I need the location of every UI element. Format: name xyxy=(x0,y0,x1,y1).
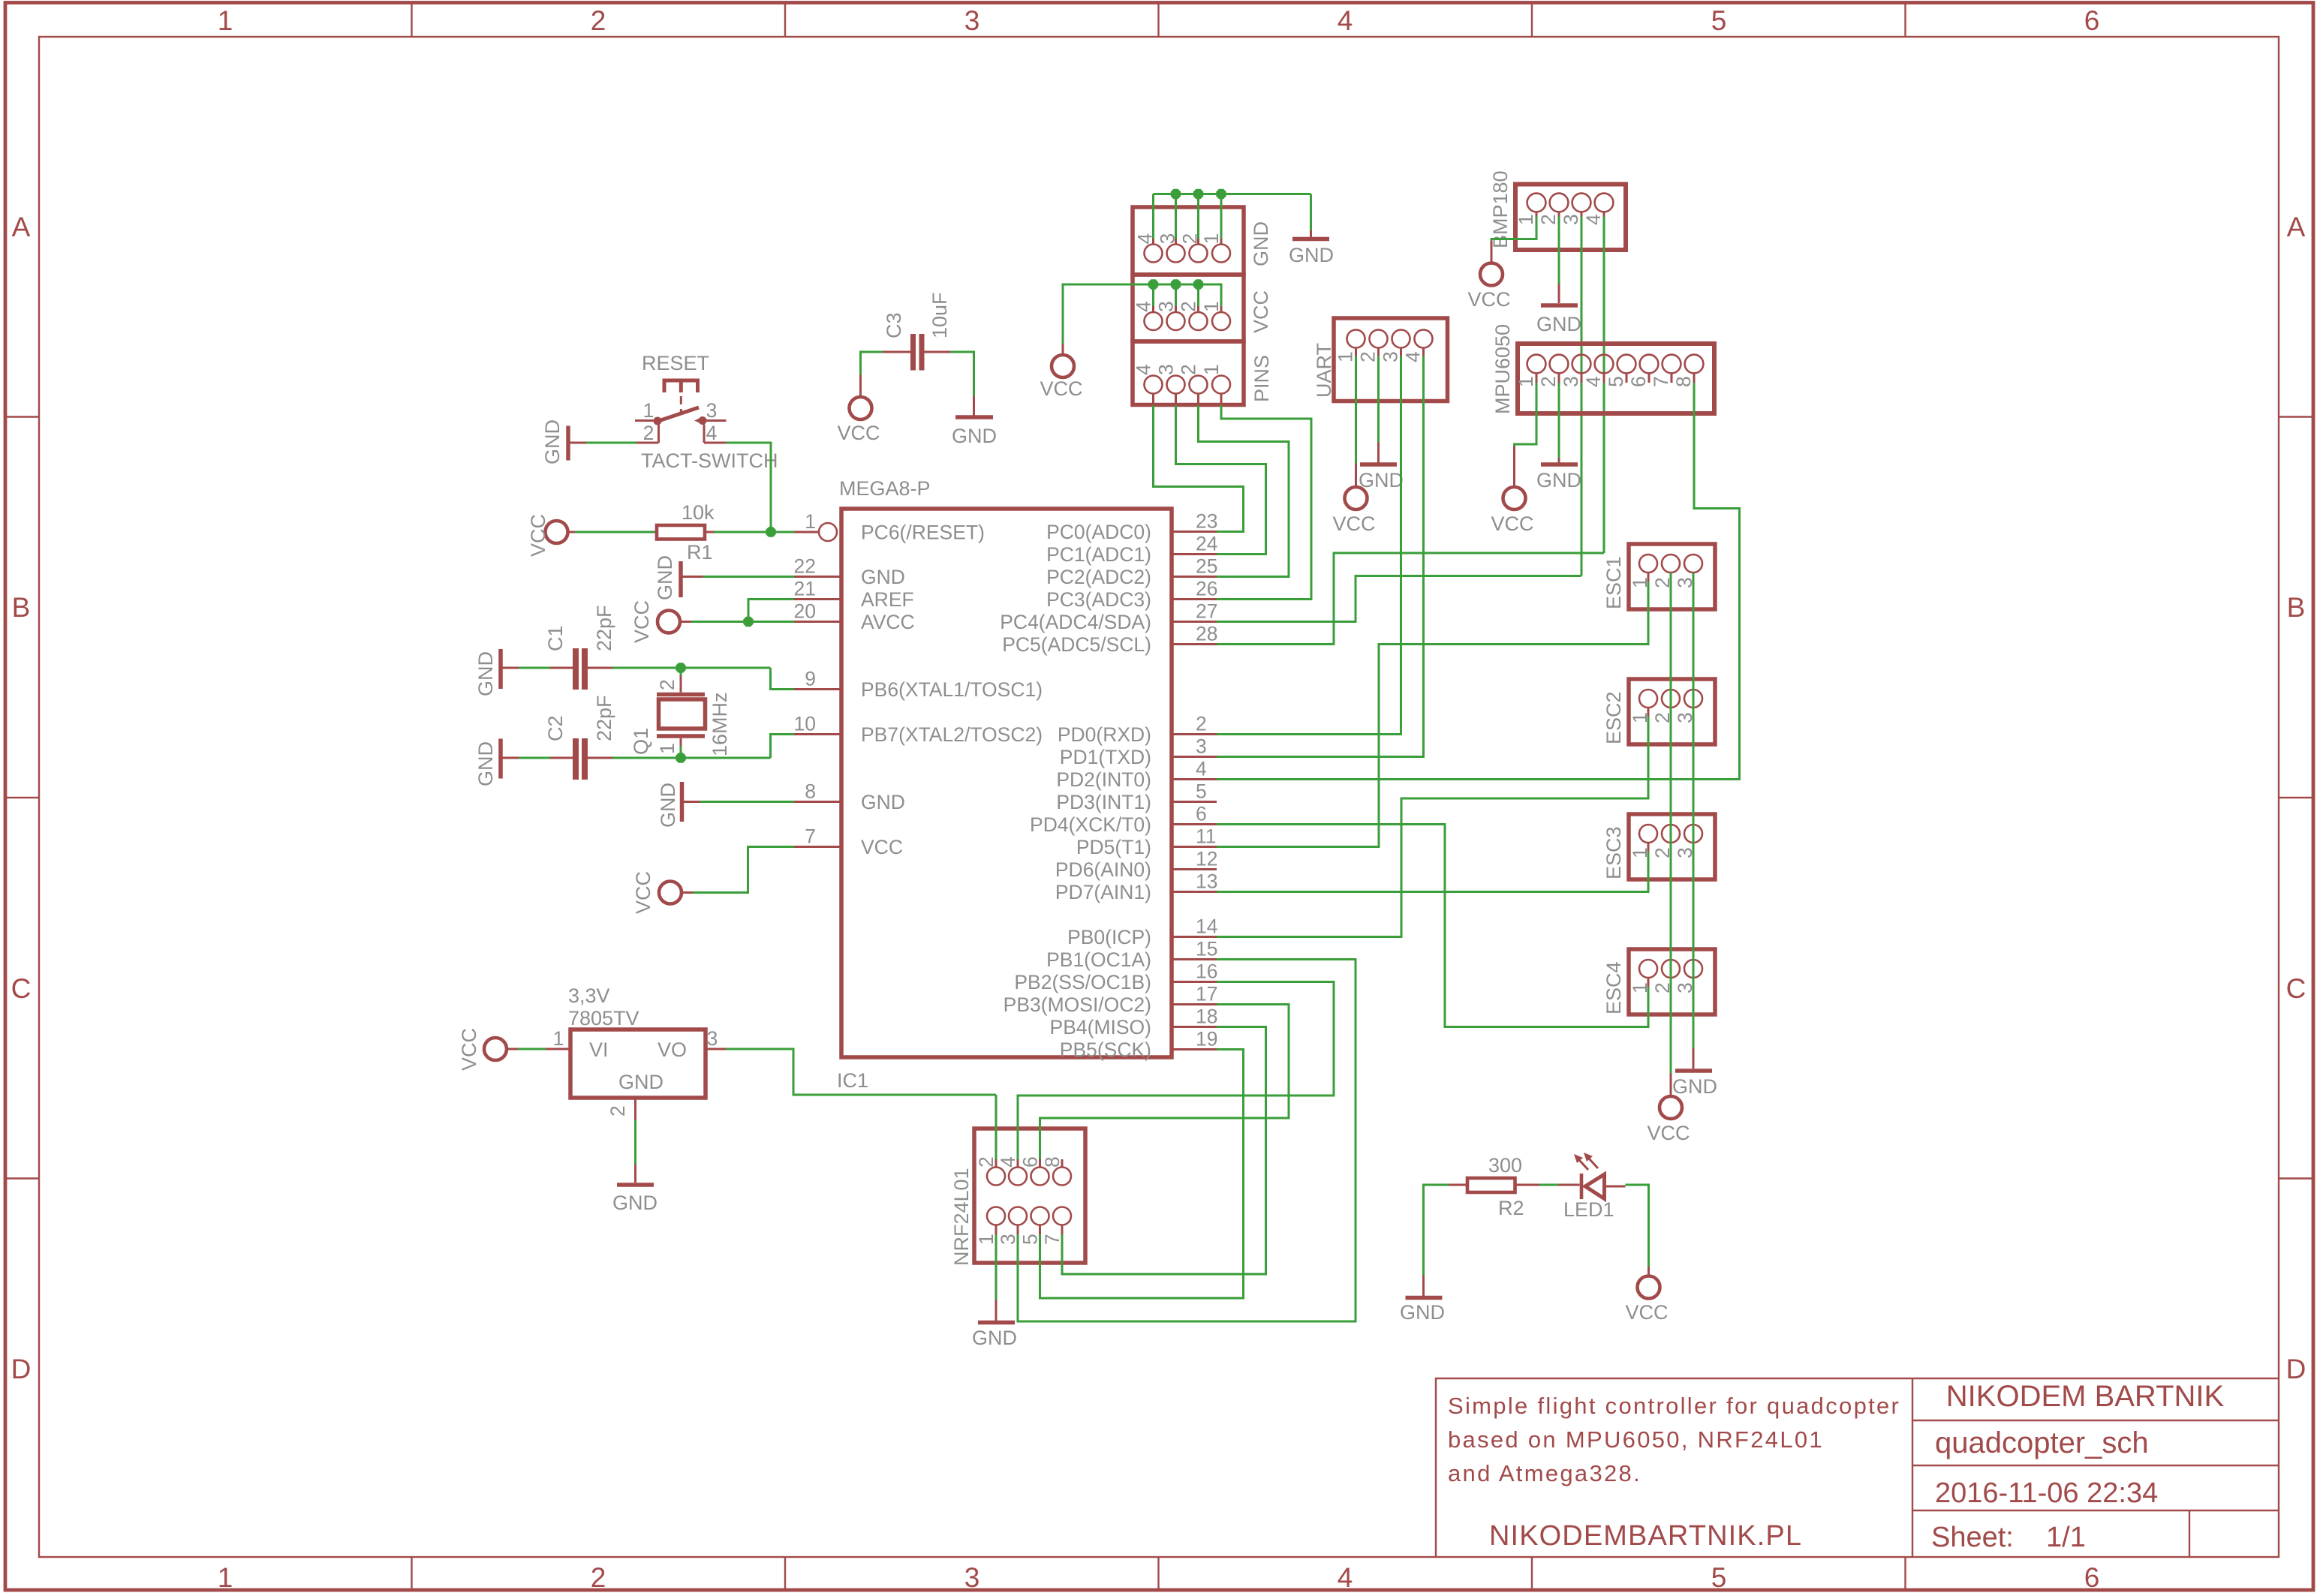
svg-text:13: 13 xyxy=(1196,870,1217,893)
svg-text:GND: GND xyxy=(612,1192,657,1214)
wire BMP180 pin4 SCL column xyxy=(1603,217,1605,554)
svg-text:GND: GND xyxy=(474,651,497,696)
header ESC3 pin circle 3 xyxy=(1684,825,1702,843)
header VCC pin circle 4 xyxy=(1145,312,1163,330)
svg-text:GND: GND xyxy=(1400,1301,1445,1324)
header MPU6050 pin circle 4 xyxy=(1595,355,1614,374)
header UART pin 1 stub xyxy=(1355,348,1357,356)
ground symbol (BMP180) xyxy=(1558,284,1560,304)
header NRF24L01 body xyxy=(974,1129,1085,1263)
header PINS pin circle 1 xyxy=(1212,376,1230,394)
svg-text:VCC: VCC xyxy=(837,422,880,444)
svg-text:14: 14 xyxy=(1196,915,1217,938)
svg-text:VCC: VCC xyxy=(630,600,653,643)
svg-text:ESC2: ESC2 xyxy=(1602,691,1625,744)
svg-text:LED1: LED1 xyxy=(1563,1198,1614,1221)
svg-text:5: 5 xyxy=(1019,1234,1042,1245)
header PINS pin 3 stub xyxy=(1175,394,1177,406)
svg-text:1: 1 xyxy=(656,743,679,754)
LED LED1 xyxy=(1558,1184,1580,1186)
wire NRF pin5 SCK to IC1 pin19 xyxy=(1040,1050,1244,1299)
svg-text:VCC: VCC xyxy=(1040,377,1082,400)
header NRF24L01 pin circle 1 xyxy=(987,1207,1005,1225)
header BMP180 body xyxy=(1515,185,1626,251)
wire PINS pin2 to IC1 pin25 xyxy=(1199,405,1289,577)
junction GND rail xyxy=(1171,189,1181,199)
header ESC2 body xyxy=(1629,679,1715,744)
ground symbol (IC1 pin 8) xyxy=(680,782,685,822)
tact switch contact dot pin3/4 xyxy=(699,416,707,425)
svg-text:2: 2 xyxy=(591,1562,606,1593)
IC1 pin 24 stub xyxy=(1172,553,1217,555)
IC1 pin 2 stub xyxy=(1172,733,1217,735)
frame row tick (left) xyxy=(4,797,39,798)
crystal Q1 pin 2 lead xyxy=(680,675,682,693)
svg-text:VCC: VCC xyxy=(1467,288,1510,311)
IC1 pin 8 stub xyxy=(794,801,841,803)
IC1 pin 3 stub xyxy=(1172,756,1217,758)
IC1 pin 27 stub xyxy=(1172,621,1217,623)
wire VCC to IC1 pin7 xyxy=(693,847,794,893)
svg-text:2016-11-06 22:34: 2016-11-06 22:34 xyxy=(1935,1477,2158,1509)
svg-text:8: 8 xyxy=(1672,376,1695,387)
wire header VCC pin 4 riser xyxy=(1152,284,1154,306)
wire MPU6050 pin1 to VCC xyxy=(1515,383,1537,446)
header ESC1 body xyxy=(1629,544,1715,609)
header NRF24L01 pin 6 stub xyxy=(1039,1159,1041,1168)
IC1 pin 20 stub xyxy=(794,621,841,623)
svg-text:23: 23 xyxy=(1196,510,1217,533)
header MPU6050 pin circle 6 xyxy=(1640,355,1659,374)
tact switch pin 2 lead xyxy=(657,425,660,443)
wire UART pin2 to GND xyxy=(1377,356,1380,443)
title block row line 3 xyxy=(1912,1510,2279,1511)
svg-text:PB3(MOSI/OC2): PB3(MOSI/OC2) xyxy=(1004,993,1151,1016)
tact switch pin 1 lead xyxy=(635,419,654,422)
ground symbol (GND header) xyxy=(1310,230,1312,237)
header ESC1 pin circle 3 xyxy=(1684,555,1702,573)
title block sheet divider xyxy=(2189,1510,2190,1557)
svg-text:3,3V: 3,3V xyxy=(568,984,610,1007)
IC1 pin 1 inversion circle xyxy=(819,523,837,541)
VCC symbol (R1) xyxy=(546,521,568,543)
wire SDA IC1 pin27 to BMP180/MPU6050 xyxy=(1217,576,1581,622)
svg-text:GND: GND xyxy=(474,741,497,786)
wire C3 to GND xyxy=(950,352,974,396)
wire C1 to XTAL1 net xyxy=(612,667,771,669)
VCC symbol (IC1 pin 7) xyxy=(659,882,682,904)
svg-text:1: 1 xyxy=(1335,351,1357,362)
wire header GND pin 1 riser xyxy=(1220,194,1223,239)
VCC symbol (LED1) xyxy=(1647,1267,1650,1276)
junction VCC rail xyxy=(1171,279,1181,289)
header ESC3 pin 1 stub xyxy=(1647,843,1650,852)
svg-text:GND: GND xyxy=(1250,221,1272,266)
junction node /RESET xyxy=(766,527,775,537)
frame row tick (right) xyxy=(2279,1177,2313,1179)
resistor R1 right lead xyxy=(705,531,714,534)
capacitor C1 left lead xyxy=(550,667,573,669)
ground symbol (NRF24L01) xyxy=(995,1300,998,1321)
header NRF24L01 pin 5 stub xyxy=(1039,1225,1041,1235)
IC1 pin 16 stub xyxy=(1172,981,1217,983)
svg-text:3: 3 xyxy=(1560,376,1582,387)
svg-text:Simple flight controller for q: Simple flight controller for quadcopter xyxy=(1448,1393,1900,1419)
7805 pin 1 stub xyxy=(546,1048,570,1050)
svg-text:16: 16 xyxy=(1196,960,1217,983)
wire C3 to VCC xyxy=(861,352,883,374)
tact switch dashed link xyxy=(680,396,682,413)
header MPU6050 pin circle 7 xyxy=(1663,355,1681,374)
frame column tick (bottom) xyxy=(784,1557,786,1591)
wire BMP180 pin3 SDA column xyxy=(1581,217,1583,576)
header MPU6050 body xyxy=(1518,344,1714,413)
header ESC4 pin 1 stub xyxy=(1647,978,1650,987)
header MPU6050 pin 6 stub xyxy=(1648,373,1650,383)
junction AVCC/AREF node xyxy=(743,617,753,627)
svg-text:3: 3 xyxy=(964,1562,980,1593)
svg-text:GND: GND xyxy=(1289,244,1334,266)
svg-text:1: 1 xyxy=(553,1027,564,1050)
svg-text:PC5(ADC5/SCL): PC5(ADC5/SCL) xyxy=(1002,633,1151,656)
wire BMP180 pin2 to GND xyxy=(1558,217,1560,284)
capacitor C2 plates xyxy=(573,738,579,780)
svg-text:PB5(SCK): PB5(SCK) xyxy=(1060,1038,1151,1061)
crystal Q1 pin 1 lead xyxy=(680,738,682,746)
crystal Q1 electrodes xyxy=(657,693,705,697)
header GND pin 1 stub xyxy=(1220,239,1223,245)
header NRF24L01 pin 1 stub xyxy=(995,1225,998,1235)
header ESC1 pin 1 stub xyxy=(1647,573,1650,582)
svg-text:7: 7 xyxy=(1041,1234,1064,1245)
IC1 pin 21 stub xyxy=(794,598,841,600)
header MPU6050 pin 7 stub xyxy=(1671,373,1673,383)
svg-text:1: 1 xyxy=(1515,376,1537,387)
svg-text:B: B xyxy=(12,592,31,623)
wire SCL IC1 pin28 to BMP180/MPU6050 xyxy=(1217,553,1604,645)
svg-text:1: 1 xyxy=(805,510,816,533)
header GND pin 2 stub xyxy=(1197,239,1199,245)
svg-text:PB7(XTAL2/TOSC2): PB7(XTAL2/TOSC2) xyxy=(861,723,1043,746)
wire MPU6050 pin8 INT to IC1 pin4 xyxy=(1217,383,1740,780)
IC1 pin 12 stub xyxy=(1172,868,1217,870)
wire XTAL2 net to IC1 pin10 xyxy=(771,735,795,759)
svg-text:ESC1: ESC1 xyxy=(1602,556,1625,609)
svg-text:2: 2 xyxy=(591,5,606,36)
tact switch pin 2 lead horizontal xyxy=(636,442,659,444)
header NRF24L01 pin circle 6 xyxy=(1031,1168,1049,1186)
VCC symbol (7805 input) xyxy=(484,1038,507,1060)
svg-text:6: 6 xyxy=(1019,1156,1042,1168)
IC IC1 MEGA8-P body xyxy=(841,509,1172,1057)
IC1 pin 26 stub xyxy=(1172,598,1217,600)
svg-text:8: 8 xyxy=(805,780,816,803)
svg-text:GND: GND xyxy=(1536,469,1581,491)
svg-text:2: 2 xyxy=(1537,214,1560,225)
svg-text:PC3(ADC3): PC3(ADC3) xyxy=(1046,588,1151,611)
wire BMP180 pin1 to VCC xyxy=(1491,217,1536,242)
ground symbol (C3) xyxy=(973,396,975,416)
svg-text:4: 4 xyxy=(1402,351,1425,362)
header PINS pin circle 3 xyxy=(1167,376,1185,394)
svg-text:GND: GND xyxy=(1672,1075,1717,1098)
header PINS pin 4 stub xyxy=(1152,394,1154,406)
svg-text:PB4(MISO): PB4(MISO) xyxy=(1050,1016,1151,1038)
header GND pin circle 3 xyxy=(1167,245,1185,263)
resistor R1 body xyxy=(657,525,705,540)
svg-text:4: 4 xyxy=(1338,5,1353,36)
capacitor C1 plates xyxy=(573,648,579,690)
IC1 pin 4 stub xyxy=(1172,778,1217,780)
wire VCC to 7805 VI xyxy=(518,1048,546,1050)
wire ESC1 pin1 to IC1 pin11 xyxy=(1217,582,1648,847)
frame column tick (top) xyxy=(784,4,786,37)
crystal Q1 body xyxy=(659,699,706,729)
VCC symbol (VCC header rail) xyxy=(1052,355,1074,377)
svg-text:PB6(XTAL1/TOSC1): PB6(XTAL1/TOSC1) xyxy=(861,678,1043,701)
capacitor C1 right lead xyxy=(588,667,612,669)
header VCC pin 1 stub xyxy=(1220,306,1223,312)
svg-text:6: 6 xyxy=(2084,5,2100,36)
wire ESC3 pin1 to IC1 pin13 xyxy=(1217,852,1648,892)
svg-text:6: 6 xyxy=(1627,376,1650,387)
header NRF24L01 pin circle 4 xyxy=(1009,1168,1027,1186)
header UART (4-pin) body xyxy=(1334,318,1448,401)
wire MPU6050 pin2 to GND xyxy=(1558,383,1560,458)
svg-text:18: 18 xyxy=(1196,1005,1217,1028)
header ESC2 pin 1 stub xyxy=(1647,708,1650,717)
wire NRF pin1 to GND xyxy=(995,1234,998,1300)
svg-text:1: 1 xyxy=(1200,364,1223,375)
capacitor C2 right lead xyxy=(588,757,612,759)
svg-text:1: 1 xyxy=(1200,301,1223,312)
ground symbol (IC1 pin 22) xyxy=(679,561,683,597)
svg-text:NIKODEMBARTNIK.PL: NIKODEMBARTNIK.PL xyxy=(1489,1520,1802,1552)
svg-text:PD2(INT0): PD2(INT0) xyxy=(1056,768,1151,791)
svg-text:26: 26 xyxy=(1196,578,1217,600)
svg-text:4: 4 xyxy=(1582,214,1605,225)
wire 3.3V from 7805 VO to NRF pin2 xyxy=(726,1049,996,1095)
svg-text:IC1: IC1 xyxy=(837,1069,868,1092)
header NRF24L01 pin circle 8 xyxy=(1053,1168,1071,1186)
title block row line 2 xyxy=(1912,1465,2279,1466)
svg-text:A: A xyxy=(2287,212,2306,242)
svg-text:2: 2 xyxy=(1178,301,1200,312)
IC1 pin 14 stub xyxy=(1172,936,1217,938)
svg-text:1: 1 xyxy=(218,1562,233,1593)
svg-text:6: 6 xyxy=(1196,803,1207,825)
frame column tick (top) xyxy=(1531,4,1533,37)
svg-text:3: 3 xyxy=(707,1027,718,1050)
wire XTAL1 net to IC1 pin9 xyxy=(771,668,795,690)
wire header VCC pin 2 riser xyxy=(1197,284,1199,306)
wire C2 to XTAL2 net xyxy=(612,757,771,759)
frame row tick (right) xyxy=(2279,416,2313,417)
IC1 pin 10 stub xyxy=(794,733,841,735)
svg-text:based on MPU6050, NRF24L01: based on MPU6050, NRF24L01 xyxy=(1448,1426,1824,1453)
svg-text:Sheet:: Sheet: xyxy=(1931,1522,2014,1553)
svg-text:MEGA8-P: MEGA8-P xyxy=(839,477,931,500)
wire VCC to R1 xyxy=(575,531,657,534)
svg-text:PD1(TXD): PD1(TXD) xyxy=(1060,746,1151,768)
svg-text:10: 10 xyxy=(794,713,816,735)
wire tact switch pin4 to /RESET node xyxy=(727,443,772,532)
svg-text:1: 1 xyxy=(1515,214,1537,225)
wire GND rail to ground xyxy=(1310,194,1312,231)
svg-text:PC6(/RESET): PC6(/RESET) xyxy=(861,521,985,544)
header BMP180 pin circle 1 xyxy=(1527,194,1546,212)
header PINS pin circle 4 xyxy=(1145,376,1163,394)
header UART pin circle 2 xyxy=(1370,330,1388,348)
header ESC4 pin circle 1 xyxy=(1639,960,1657,978)
svg-text:5: 5 xyxy=(1711,1562,1727,1593)
svg-text:VCC: VCC xyxy=(1647,1122,1690,1144)
frame column tick (bottom) xyxy=(1904,1557,1906,1591)
frame column tick (bottom) xyxy=(411,1557,412,1591)
svg-text:5: 5 xyxy=(1711,5,1727,36)
wire ESC2 pin1 to IC1 pin14 xyxy=(1217,717,1648,937)
svg-text:R2: R2 xyxy=(1498,1197,1524,1219)
svg-text:quadcopter_sch: quadcopter_sch xyxy=(1935,1426,2149,1459)
svg-text:28: 28 xyxy=(1196,623,1217,645)
svg-text:R1: R1 xyxy=(687,541,713,564)
svg-text:GND: GND xyxy=(861,566,905,588)
svg-text:and Atmega328.: and Atmega328. xyxy=(1448,1460,1641,1486)
header ESC2 pin circle 2 xyxy=(1662,690,1680,708)
svg-text:11: 11 xyxy=(1196,825,1217,848)
IC1 pin 7 stub xyxy=(794,846,841,848)
wire NRF pin6 MOSI to IC1 pin17 xyxy=(1040,1005,1289,1160)
svg-text:VCC: VCC xyxy=(527,514,549,557)
resistor R2 left lead xyxy=(1449,1184,1467,1186)
svg-text:10uF: 10uF xyxy=(928,292,951,338)
svg-text:C2: C2 xyxy=(544,715,567,741)
svg-text:2: 2 xyxy=(606,1105,629,1117)
svg-text:20: 20 xyxy=(794,600,816,623)
header MPU6050 pin circle 3 xyxy=(1572,355,1591,374)
svg-text:GND: GND xyxy=(972,1327,1017,1349)
svg-text:4: 4 xyxy=(1338,1562,1353,1593)
svg-text:VCC: VCC xyxy=(861,836,903,858)
wire NRF pin7 MISO to IC1 pin18 xyxy=(1062,1027,1266,1275)
tact switch pin 4 lead horizontal xyxy=(704,442,727,444)
header MPU6050 pin 4 stub xyxy=(1603,373,1605,383)
header NRF24L01 pin circle 7 xyxy=(1053,1207,1071,1225)
wire ESC pin2 VCC rail xyxy=(1670,573,1672,1074)
tact switch actuator stem xyxy=(679,383,683,393)
tact switch S1 actuator bracket xyxy=(664,380,698,392)
IC1 pin 25 stub xyxy=(1172,576,1217,578)
header ESC4 pin circle 3 xyxy=(1684,960,1702,978)
svg-text:22pF: 22pF xyxy=(593,695,615,741)
VCC symbol (C3) xyxy=(859,374,862,397)
7805 pin 3 stub xyxy=(706,1048,726,1050)
svg-text:B: B xyxy=(2287,592,2306,623)
header MPU6050 pin circle 1 xyxy=(1527,355,1546,374)
ground symbol (tact switch pin 2) xyxy=(566,426,570,461)
frame column tick (top) xyxy=(1904,4,1906,37)
svg-text:4: 4 xyxy=(997,1156,1019,1168)
svg-text:BMP180: BMP180 xyxy=(1489,170,1512,248)
svg-text:2: 2 xyxy=(1537,376,1560,387)
header MPU6050 pin 3 stub xyxy=(1581,373,1583,383)
junction VCC rail xyxy=(1193,279,1203,289)
svg-text:NIKODEM BARTNIK: NIKODEM BARTNIK xyxy=(1946,1380,2225,1413)
svg-text:VCC: VCC xyxy=(458,1028,480,1071)
svg-text:VCC: VCC xyxy=(1625,1301,1668,1324)
svg-text:3: 3 xyxy=(1560,214,1582,225)
header PINS pin 2 stub xyxy=(1197,394,1199,406)
header GND pin 3 stub xyxy=(1175,239,1177,245)
title block outline xyxy=(1436,1378,2279,1557)
ground symbol (ESC rail) xyxy=(1693,1048,1695,1069)
IC1 pin 13 stub xyxy=(1172,891,1217,893)
svg-text:PC2(ADC2): PC2(ADC2) xyxy=(1046,566,1151,588)
header NRF24L01 pin 7 stub xyxy=(1061,1225,1064,1235)
svg-text:3: 3 xyxy=(706,399,718,422)
IC1 pin 9 stub xyxy=(794,688,841,690)
frame column tick (top) xyxy=(411,4,412,37)
header UART pin circle 1 xyxy=(1347,330,1365,348)
title block main divider xyxy=(1912,1378,1913,1557)
resistor R2 right lead xyxy=(1515,1184,1540,1186)
svg-text:PC0(ADC0): PC0(ADC0) xyxy=(1046,521,1151,543)
wire PINS pin1 to IC1 pin26 xyxy=(1217,405,1311,600)
capacitor C3 right lead xyxy=(925,351,951,353)
svg-text:PB0(ICP): PB0(ICP) xyxy=(1067,926,1151,948)
svg-text:VI: VI xyxy=(589,1038,609,1061)
svg-text:GND: GND xyxy=(1359,469,1404,491)
IC1 pin 28 stub xyxy=(1172,643,1217,645)
wire LED1 to VCC xyxy=(1626,1185,1649,1267)
svg-text:22pF: 22pF xyxy=(593,605,615,651)
wire R1 to IC1 pin1 xyxy=(714,531,794,534)
header ESC2 pin circle 3 xyxy=(1684,690,1702,708)
wire tact switch pin2 to GND xyxy=(586,442,636,444)
svg-text:GND: GND xyxy=(952,425,997,447)
svg-text:AREF: AREF xyxy=(861,588,914,611)
svg-text:GND: GND xyxy=(1536,313,1581,335)
svg-text:C1: C1 xyxy=(544,625,567,651)
header BMP180 pin 1 stub xyxy=(1536,212,1538,216)
frame row tick (left) xyxy=(4,1177,39,1179)
header ESC4 body xyxy=(1629,949,1715,1014)
header VCC pin circle 2 xyxy=(1190,312,1208,330)
svg-text:PD6(AIN0): PD6(AIN0) xyxy=(1055,858,1151,881)
wire header VCC pin 3 riser xyxy=(1175,284,1177,306)
header VCC pin circle 1 xyxy=(1212,312,1230,330)
wire header GND pin 4 riser xyxy=(1152,194,1154,239)
svg-text:1: 1 xyxy=(975,1234,998,1245)
svg-text:6: 6 xyxy=(2084,1562,2100,1593)
svg-text:VCC: VCC xyxy=(1250,290,1272,333)
svg-text:PINS: PINS xyxy=(1250,355,1273,402)
svg-text:C3: C3 xyxy=(883,312,905,338)
svg-text:TACT-SWITCH: TACT-SWITCH xyxy=(641,449,778,472)
VCC symbol (MPU6050) xyxy=(1513,446,1515,487)
IC1 pin 11 stub xyxy=(1172,846,1217,848)
wire PINS pin3 to IC1 pin24 xyxy=(1176,405,1266,555)
svg-text:5: 5 xyxy=(1605,376,1627,387)
svg-text:GND: GND xyxy=(657,783,679,828)
svg-text:1/1: 1/1 xyxy=(2046,1522,2086,1553)
header UART pin circle 3 xyxy=(1392,330,1410,348)
IC1 pin 19 stub xyxy=(1172,1048,1217,1050)
svg-text:15: 15 xyxy=(1196,938,1217,960)
header UART pin 2 stub xyxy=(1377,348,1380,356)
svg-text:9: 9 xyxy=(805,668,816,690)
resistor R2 body xyxy=(1467,1178,1515,1192)
